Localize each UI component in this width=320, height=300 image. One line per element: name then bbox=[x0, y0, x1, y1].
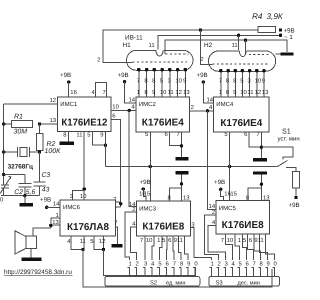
svg-text:14: 14 bbox=[128, 97, 135, 104]
svg-text:11: 11 bbox=[76, 132, 82, 139]
svg-text:5: 5 bbox=[240, 78, 244, 85]
svg-text:12: 12 bbox=[99, 238, 106, 245]
switch S1 lever bbox=[277, 160, 288, 167]
svg-text:+9В: +9В bbox=[214, 179, 225, 186]
svg-text:4: 4 bbox=[92, 89, 96, 96]
svg-text:5: 5 bbox=[238, 260, 242, 267]
wires - H1 pins down to IMS2 with pin numbers bbox=[137, 71, 191, 97]
svg-text:С3: С3 bbox=[42, 172, 51, 179]
svg-text:11: 11 bbox=[168, 89, 174, 96]
wire - lower bar to IMS3 pins 8/13 bbox=[168, 175, 191, 202]
svg-text:10: 10 bbox=[146, 237, 153, 244]
capacitor C2 5,6 bbox=[14, 183, 35, 196]
op IC IMS3 K176IE8 bbox=[136, 201, 190, 236]
power +9B left of IMS6 pin 14 bbox=[40, 196, 60, 209]
wire - IMS2 pin 5 down to IMS3 pin 15 bbox=[145, 131, 150, 201]
svg-text:7: 7 bbox=[177, 131, 180, 138]
wire - IMS1 pin 9 down to set line bbox=[100, 132, 105, 167]
svg-text:8: 8 bbox=[259, 260, 263, 267]
wire - IMS6 pin 7 to capacitor bar bbox=[112, 220, 123, 248]
svg-text:1: 1 bbox=[128, 260, 131, 267]
switch S2 (units of minutes) bbox=[105, 276, 200, 286]
op IC IMS1 K176IE12 bbox=[58, 97, 112, 132]
speaker BA1 bbox=[15, 231, 37, 258]
vacuum tube H1 (IV-11) bbox=[123, 42, 194, 72]
power +9B above IMS3 pin 16 bbox=[139, 179, 151, 201]
resistor R2 100K bbox=[36, 124, 61, 155]
svg-text:К176ИЕ4: К176ИЕ4 bbox=[220, 118, 262, 129]
svg-text:8: 8 bbox=[144, 89, 148, 96]
svg-text:10: 10 bbox=[80, 193, 87, 200]
op IC IMS2 K176IE4 bbox=[136, 97, 190, 132]
wire - H1 pin 2 line inside tube bbox=[127, 62, 133, 64]
node - junction of anode bus and H2 pin2 drop bbox=[199, 28, 209, 64]
svg-text:14: 14 bbox=[53, 201, 60, 208]
svg-text:уст. мин: уст. мин bbox=[278, 137, 300, 143]
svg-text:9: 9 bbox=[100, 132, 103, 139]
svg-text:К176ИЕ12: К176ИЕ12 bbox=[61, 117, 107, 128]
svg-text:8: 8 bbox=[180, 260, 184, 267]
link caption bbox=[4, 269, 73, 276]
svg-text:дес. мин: дес. мин bbox=[238, 280, 260, 286]
wire - H2 pin 2 line inside tube bbox=[209, 64, 213, 66]
op IC IMS6 K176LA8 bbox=[60, 200, 115, 236]
svg-text:2: 2 bbox=[97, 57, 100, 64]
svg-text:http://299792458.3dn.ru: http://299792458.3dn.ru bbox=[4, 269, 72, 276]
capacitor bar pair at IMS4/IMS5 bbox=[253, 158, 267, 175]
svg-text:32768Гц: 32768Гц bbox=[8, 163, 33, 170]
svg-text:10: 10 bbox=[240, 89, 247, 96]
svg-text:Н2: Н2 bbox=[204, 42, 213, 49]
wire - IMS5 pin 2 to S3 contact 2 bbox=[205, 209, 219, 260]
svg-text:2: 2 bbox=[217, 260, 220, 267]
wire - IMS1 pin 6 to IMS6 pins 2/9 bbox=[111, 113, 122, 212]
wire - IMS1 pin 12 to left rail bbox=[4, 97, 58, 185]
wire - to S2 contact 0 bbox=[104, 250, 196, 276]
op IC IMS4 K176IE4 bbox=[214, 97, 270, 132]
wire - S1 to resistor and +9B bbox=[286, 167, 300, 208]
svg-text:ИМС2: ИМС2 bbox=[139, 101, 157, 108]
svg-text:К176ИЕ4: К176ИЕ4 bbox=[142, 118, 184, 129]
svg-text:13: 13 bbox=[183, 194, 190, 201]
svg-text:10: 10 bbox=[160, 89, 167, 96]
svg-text:ИМС5: ИМС5 bbox=[219, 205, 237, 212]
svg-text:R1: R1 bbox=[14, 113, 23, 120]
svg-text:9: 9 bbox=[266, 260, 269, 267]
wire - IMS2 pin 6 joins pin 7 bbox=[165, 131, 182, 145]
svg-text:7: 7 bbox=[219, 78, 222, 85]
svg-text:2: 2 bbox=[200, 56, 203, 63]
resistor R1 30M bbox=[2, 113, 41, 135]
svg-text:12: 12 bbox=[255, 89, 262, 96]
svg-text:Н1: Н1 bbox=[123, 42, 132, 49]
wire - oscillator common bbox=[1, 194, 40, 197]
svg-text:7: 7 bbox=[221, 237, 224, 244]
svg-text:ИМС1: ИМС1 bbox=[60, 101, 78, 108]
wire - IMS1 pin 13 to R1/R2 node bbox=[40, 117, 58, 124]
node - heater line to H2 notch bbox=[237, 34, 240, 50]
op IC IMS5 K176IE8 bbox=[216, 201, 269, 234]
wire - IMS5 pin 4 to S3 contact 3 bbox=[208, 219, 226, 260]
svg-text:11: 11 bbox=[80, 238, 86, 245]
svg-text:+9В: +9В bbox=[40, 196, 51, 203]
wire - IMS3 pin 4 to S2 contact 2 bbox=[130, 220, 136, 260]
svg-text:R4: R4 bbox=[252, 12, 263, 21]
svg-text:8: 8 bbox=[144, 78, 148, 85]
svg-text:К176ИЕ8: К176ИЕ8 bbox=[222, 220, 264, 231]
svg-text:2: 2 bbox=[212, 209, 215, 216]
svg-text:+9В: +9В bbox=[289, 202, 300, 209]
svg-text:9: 9 bbox=[187, 260, 190, 267]
power +9B at R4 right bbox=[279, 27, 295, 34]
svg-text:4: 4 bbox=[209, 104, 213, 111]
wires - H2 pins down to IMS4 with pin numbers bbox=[219, 72, 269, 97]
svg-text:8: 8 bbox=[152, 78, 156, 85]
wire - IMS2 pin 2 to IMS4 pin 4 bbox=[190, 104, 214, 111]
ground - speaker bbox=[22, 258, 42, 261]
svg-text:1: 1 bbox=[137, 89, 140, 96]
power +9B above IMS1 pin 16 bbox=[60, 72, 78, 97]
svg-text:ИВ-11: ИВ-11 bbox=[125, 35, 143, 42]
svg-text:1: 1 bbox=[157, 237, 160, 244]
switch S2 contacts 1-0 bbox=[127, 260, 198, 277]
resistor R4 3,9K bbox=[252, 12, 284, 33]
svg-text:5: 5 bbox=[160, 78, 164, 85]
svg-text:13: 13 bbox=[49, 117, 56, 124]
wires - IMS5 outputs 7,10,1,5,6,9,11 down to S3 bbox=[221, 234, 275, 260]
svg-text:10: 10 bbox=[175, 78, 182, 85]
wire - IMS1 pin 5 joins pin 9 bbox=[87, 132, 107, 147]
svg-text:4: 4 bbox=[231, 260, 235, 267]
svg-text:0: 0 bbox=[273, 260, 277, 267]
svg-text:3: 3 bbox=[247, 78, 251, 85]
svg-text:9: 9 bbox=[262, 78, 265, 85]
wire - IMS1 pin 10 to IMS2 pin 4 bbox=[111, 103, 136, 110]
power +9B above IMS5 pin 16 bbox=[214, 179, 238, 201]
wire - grid line at y=40.2 bbox=[165, 40, 287, 54]
wires - IMS6 pins 4/11 join bbox=[67, 236, 86, 251]
svg-text:7: 7 bbox=[114, 220, 117, 227]
capacitor C3 43 bbox=[34, 152, 51, 196]
svg-text:4: 4 bbox=[151, 260, 155, 267]
svg-text:14: 14 bbox=[206, 97, 213, 104]
svg-text:ед. мин: ед. мин bbox=[166, 280, 185, 286]
svg-text:3: 3 bbox=[224, 260, 228, 267]
svg-text:S3: S3 bbox=[216, 279, 224, 286]
wire - heater line (tube notches) at y=35.3 bbox=[158, 35, 280, 49]
label S1 bbox=[278, 126, 300, 142]
wires - IMS3 outputs 7,10,1,5,6,9,11 down to S2 bbox=[140, 236, 188, 260]
svg-text:1: 1 bbox=[56, 212, 59, 219]
svg-text:2: 2 bbox=[191, 104, 194, 111]
svg-text:11: 11 bbox=[177, 237, 183, 244]
svg-text:13: 13 bbox=[183, 89, 190, 96]
svg-text:2: 2 bbox=[135, 260, 138, 267]
svg-text:5: 5 bbox=[162, 237, 166, 244]
svg-text:11: 11 bbox=[258, 237, 264, 244]
svg-text:30М: 30М bbox=[14, 129, 28, 136]
wires - IMS6 pins 5/12 join bbox=[90, 236, 105, 251]
svg-text:9: 9 bbox=[183, 78, 186, 85]
svg-text:S2: S2 bbox=[150, 279, 157, 286]
wire - to S3 contact 0 (long bottom run) bbox=[83, 250, 272, 287]
svg-text:1: 1 bbox=[238, 237, 241, 244]
capacitor bar at H2 grid/anode (right of tube) bbox=[276, 52, 294, 55]
svg-text:9: 9 bbox=[152, 89, 155, 96]
svg-text:5: 5 bbox=[87, 132, 91, 139]
svg-text:0: 0 bbox=[194, 260, 198, 267]
node - branch down to IMS5 pin 14 bbox=[206, 109, 216, 210]
svg-text:12: 12 bbox=[175, 89, 182, 96]
capacitor bar at IMS1 pin 8 bbox=[60, 142, 75, 145]
svg-text:~ 1: ~ 1 bbox=[284, 34, 293, 41]
svg-text:8: 8 bbox=[233, 78, 237, 85]
svg-text:5: 5 bbox=[158, 260, 162, 267]
svg-text:2: 2 bbox=[132, 206, 135, 213]
wire - IMS4 pin 5 down to IMS5 pin 15 bbox=[224, 131, 229, 201]
wire - C1/C2 top link bbox=[4, 175, 25, 184]
svg-text:8: 8 bbox=[168, 194, 172, 201]
switch S3 contacts 1-0 bbox=[209, 260, 277, 277]
svg-text:ИМС4: ИМС4 bbox=[216, 101, 234, 108]
svg-text:7: 7 bbox=[137, 78, 140, 85]
svg-text:9: 9 bbox=[233, 89, 236, 96]
svg-text:11: 11 bbox=[247, 89, 253, 96]
svg-text:5: 5 bbox=[243, 237, 247, 244]
svg-text:К176ЛА8: К176ЛА8 bbox=[67, 222, 109, 233]
node - pin10 branch down to IMS3 pin 14 bbox=[128, 109, 137, 208]
svg-text:6: 6 bbox=[166, 260, 170, 267]
capacitor bar pair at IMS2/IMS3 bbox=[175, 157, 188, 175]
svg-text:12: 12 bbox=[49, 97, 56, 104]
wire - IMS4 pin 6 joins pin 7 bbox=[244, 131, 261, 147]
svg-text:8: 8 bbox=[226, 89, 230, 96]
svg-text:3: 3 bbox=[168, 78, 172, 85]
capacitor C1 trimmer bbox=[0, 173, 11, 196]
svg-text:10: 10 bbox=[227, 237, 234, 244]
svg-text:1: 1 bbox=[219, 89, 222, 96]
svg-text:15: 15 bbox=[144, 190, 151, 197]
svg-text:0: 0 bbox=[0, 197, 4, 204]
svg-text:3: 3 bbox=[70, 193, 74, 200]
svg-text:S1: S1 bbox=[282, 126, 291, 135]
svg-text:ИМС3: ИМС3 bbox=[139, 205, 157, 212]
svg-text:+9В: +9В bbox=[118, 72, 129, 79]
svg-text:1: 1 bbox=[210, 260, 213, 267]
svg-text:100К: 100К bbox=[45, 148, 62, 155]
power +9B above IMS4 pin 14 bbox=[197, 72, 214, 104]
vacuum tube H2 (IV-11) bbox=[204, 42, 276, 73]
svg-text:3,9К: 3,9К bbox=[267, 12, 284, 21]
svg-text:6: 6 bbox=[168, 237, 172, 244]
svg-text:10: 10 bbox=[255, 78, 262, 85]
wire - set line (to S1) bbox=[106, 165, 277, 168]
svg-text:К176ИЕ8: К176ИЕ8 bbox=[142, 222, 184, 233]
svg-text:8: 8 bbox=[63, 132, 67, 139]
svg-text:+9В: +9В bbox=[140, 179, 151, 186]
svg-text:6: 6 bbox=[245, 260, 249, 267]
net label ~1 (heater supply) bbox=[279, 34, 294, 41]
power +9B above IMS2 pin 14 bbox=[118, 72, 137, 104]
svg-text:15: 15 bbox=[230, 190, 237, 197]
label ИВ-11 (display tube type) bbox=[125, 35, 143, 42]
svg-text:43: 43 bbox=[42, 187, 50, 194]
wire - IMS1 pin 8 to common bar bbox=[63, 132, 68, 142]
svg-text:С2: С2 bbox=[14, 189, 23, 196]
wire - IMS6 pins 1/13 to speaker bbox=[33, 212, 60, 236]
svg-text:3: 3 bbox=[191, 221, 195, 228]
svg-text:3: 3 bbox=[144, 260, 148, 267]
wire - IMS2 pin 7 to capacitor node bbox=[177, 131, 184, 157]
svg-text:7: 7 bbox=[256, 131, 259, 138]
svg-text:11: 11 bbox=[232, 42, 238, 49]
svg-text:11: 11 bbox=[149, 42, 155, 49]
svg-text:+9В: +9В bbox=[197, 72, 208, 79]
switch S3 (tens of minutes) bbox=[209, 276, 280, 286]
ground - oscillator bbox=[20, 196, 34, 207]
svg-text:ИМС6: ИМС6 bbox=[63, 204, 81, 211]
svg-text:+9В: +9В bbox=[60, 72, 71, 79]
svg-text:6: 6 bbox=[112, 113, 116, 120]
svg-text:13: 13 bbox=[262, 89, 269, 96]
wire - IMS1 pins 4-7 loop bbox=[92, 83, 107, 97]
svg-text:6: 6 bbox=[249, 237, 253, 244]
wire - lower bar to IMS5 pins 8/13 bbox=[246, 175, 270, 202]
svg-text:4: 4 bbox=[132, 220, 136, 227]
svg-text:16: 16 bbox=[70, 89, 77, 96]
wire - anode supply bus (H1 pin2, H2 pin2, R4) at y=30 bbox=[97, 30, 258, 64]
wire - IMS3 pin 3 to S3 contact 1 bbox=[190, 221, 211, 260]
node - grid line to H2 grid stub bbox=[244, 39, 247, 55]
wire - IMS1 pin 11 down to IMS6 pins 3/10 bbox=[70, 132, 87, 201]
wire - IMS4 pin 7 to capacitor node bbox=[256, 131, 263, 158]
svg-text:4: 4 bbox=[132, 104, 136, 111]
svg-text:7: 7 bbox=[103, 89, 106, 96]
svg-text:7: 7 bbox=[173, 260, 176, 267]
svg-text:7: 7 bbox=[252, 260, 255, 267]
crystal ZQ1 32768Hz bbox=[2, 147, 41, 170]
net label 0 bbox=[0, 197, 4, 204]
wire - IMS3 pin 2 to S2 contact 1 bbox=[125, 206, 136, 260]
svg-text:7: 7 bbox=[140, 237, 143, 244]
svg-text:5,6: 5,6 bbox=[26, 189, 36, 196]
svg-text:8: 8 bbox=[226, 78, 230, 85]
svg-text:13: 13 bbox=[52, 219, 59, 226]
wire - IMS4 pin7 node to S1 fixed contact bbox=[261, 147, 293, 159]
svg-text:10: 10 bbox=[112, 103, 119, 110]
